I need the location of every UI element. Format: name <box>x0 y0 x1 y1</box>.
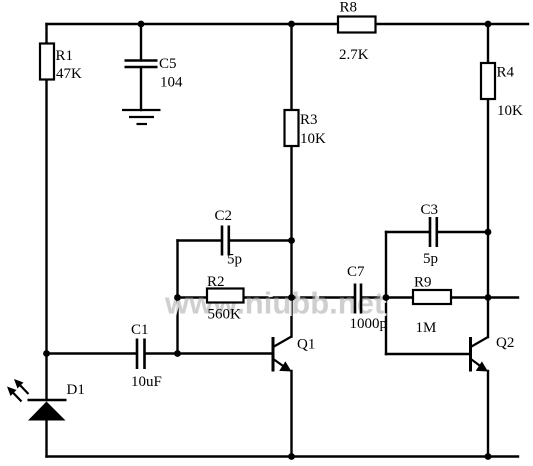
wire left rail upper <box>45 24 47 44</box>
wire C2 left lead <box>178 239 221 241</box>
capacitor C3 <box>421 202 439 267</box>
svg-text:R9: R9 <box>414 275 432 291</box>
resistor R1 <box>40 44 82 83</box>
junction mid rail Q1 collector <box>288 294 295 301</box>
svg-text:Q1: Q1 <box>297 337 315 353</box>
svg-text:C3: C3 <box>421 202 439 218</box>
svg-text:2.7K: 2.7K <box>339 47 369 63</box>
resistor R4 <box>481 63 523 119</box>
wire C3 right lead <box>438 231 489 233</box>
svg-text:10K: 10K <box>300 131 326 147</box>
svg-text:C7: C7 <box>347 264 365 280</box>
wire R2 left lead <box>178 296 208 298</box>
transistor Q2 <box>471 335 515 372</box>
svg-text:C5: C5 <box>159 56 177 72</box>
wire top rail left segment <box>47 23 339 25</box>
junction C2 right <box>288 237 295 244</box>
wire R9 right lead <box>451 296 518 298</box>
wire C2 right lead <box>230 239 292 241</box>
svg-text:5p: 5p <box>423 251 438 267</box>
wire R3 bottom to Q1 collector <box>290 146 292 337</box>
junction C7 right <box>383 294 390 301</box>
capacitor C1 <box>131 322 162 390</box>
LED D1 <box>7 379 85 421</box>
wire C7 right lead <box>362 296 414 298</box>
svg-text:1000p: 1000p <box>350 316 388 332</box>
wire mid rail to C7 <box>292 296 355 298</box>
svg-text:1M: 1M <box>416 320 437 336</box>
wire C5 lower lead <box>140 68 142 110</box>
svg-text:C1: C1 <box>131 322 149 338</box>
resistor R9 <box>413 275 451 337</box>
svg-text:10uF: 10uF <box>131 374 162 390</box>
wire C5 upper lead <box>140 24 142 60</box>
junction bottom rail Q2 <box>485 453 492 460</box>
svg-text:R8: R8 <box>340 0 358 16</box>
wire left rail lower <box>45 421 47 457</box>
resistor R3 <box>285 110 327 147</box>
svg-text:R4: R4 <box>497 65 515 81</box>
svg-text:C2: C2 <box>215 208 233 224</box>
wire Q1 emitter to bottom rail <box>290 371 292 457</box>
resistor R8 <box>338 0 376 63</box>
junction C3 right <box>485 229 492 236</box>
wire C1 right lead to Q1 base <box>146 352 272 354</box>
capacitor C5 <box>125 56 184 91</box>
junction bottom rail Q1 <box>288 453 295 460</box>
wire C1 left lead <box>47 352 137 354</box>
svg-text:R1: R1 <box>56 48 74 64</box>
junction R2 left <box>174 294 181 301</box>
junction left rail C1 <box>43 350 50 357</box>
wire R3 upper lead <box>290 24 292 110</box>
wire R4 bottom to Q2 collector <box>487 100 489 338</box>
transistor Q1 <box>273 337 315 372</box>
junction R9 right <box>485 294 492 301</box>
wire bottom rail <box>47 455 519 457</box>
wire R2 right lead <box>244 296 292 298</box>
svg-text:560K: 560K <box>208 307 242 323</box>
wire C3 left lead <box>386 231 429 233</box>
wire left rail middle <box>45 80 47 401</box>
svg-text:5p: 5p <box>227 252 242 268</box>
svg-text:R2: R2 <box>207 274 225 290</box>
svg-text:D1: D1 <box>67 382 85 398</box>
resistor R2 <box>207 274 244 323</box>
junction top rail C5 <box>138 21 145 28</box>
wire R4 upper lead <box>487 24 489 63</box>
junction top rail R3 <box>288 21 295 28</box>
svg-text:104: 104 <box>160 75 183 91</box>
svg-text:10K: 10K <box>497 103 523 119</box>
capacitor C2 <box>215 208 243 268</box>
capacitor C7 <box>347 264 387 332</box>
svg-text:Q2: Q2 <box>496 335 514 351</box>
svg-text:47K: 47K <box>56 66 82 82</box>
wire left feedback vertical <box>176 241 178 354</box>
junction C1 right <box>174 350 181 357</box>
svg-text:R3: R3 <box>300 112 318 128</box>
wire Q2 base lead <box>386 353 469 355</box>
watermark www.niubb.net <box>164 286 387 324</box>
wire top rail right segment <box>376 23 529 25</box>
wire Q2 emitter to bottom rail <box>487 371 489 457</box>
wire right feedback vertical <box>385 232 387 354</box>
junction top rail R4 <box>485 21 492 28</box>
ground <box>122 110 161 124</box>
